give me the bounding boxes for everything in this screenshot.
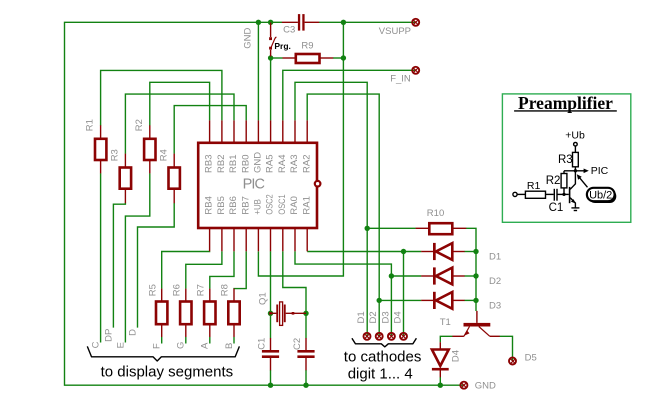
node C2 / GND rail junction [303, 383, 308, 388]
pin pad D5 [509, 358, 516, 365]
svg-text:Prg.: Prg. [274, 41, 291, 51]
transistor T1 [452, 311, 499, 336]
svg-text:D3: D3 [380, 311, 391, 323]
wire RB4 to R5 [162, 251, 210, 289]
node D2 anode junction [389, 273, 394, 278]
node R9 right / VSUPP rail junction [341, 55, 346, 60]
svg-text:R1: R1 [85, 119, 96, 131]
wire VSUPP net: vertical rail x=343.4 down to +UB row [258, 22, 343, 276]
svg-text:GND: GND [253, 152, 264, 173]
svg-text:C1: C1 [549, 202, 564, 214]
wire D3 cathode to bus [464, 299, 476, 301]
node Prg/R9/RA5 junction [268, 55, 273, 60]
preamp wire R1 to C1 [546, 193, 554, 195]
svg-text:DP: DP [104, 329, 115, 342]
wire OSC1 pin down, jog right, down to crystal right node and C2 [283, 251, 306, 338]
svg-text:VSUPP: VSUPP [379, 26, 411, 37]
svg-text:RB7: RB7 [240, 196, 251, 214]
svg-text:R2: R2 [134, 119, 145, 131]
svg-text:D1: D1 [356, 311, 367, 323]
svg-text:D2: D2 [489, 276, 501, 287]
wire R3 bottom to segment DP stub [113, 203, 125, 328]
preamp capacitor C1 [554, 189, 557, 201]
svg-text:D1: D1 [489, 252, 501, 263]
preamp ground symbol [571, 208, 579, 211]
wire T1 collector to D5 pad [500, 336, 513, 361]
resistor R9 [283, 54, 334, 63]
preamp resistor R2 [561, 174, 567, 188]
wire D2 cathode to bus [464, 275, 476, 277]
preamp arrow to PIC [584, 169, 589, 174]
wire R1 bottom to segment C stub [100, 173, 102, 342]
capacitor C3 [282, 14, 319, 31]
wire RA2 to segment column x=379.2 [307, 94, 379, 336]
svg-text:D: D [128, 329, 139, 336]
svg-text:F_IN: F_IN [390, 74, 411, 85]
svg-text:RA3: RA3 [289, 155, 300, 173]
svg-text:RA5: RA5 [265, 155, 276, 173]
svg-text:D5: D5 [525, 353, 537, 364]
resistor R4 [169, 154, 180, 204]
svg-text:F: F [152, 343, 163, 349]
resistor R10 [416, 223, 467, 234]
node R10 left junction [365, 226, 370, 231]
pin pad VSUPP [412, 19, 419, 26]
pin pad GND [460, 382, 467, 389]
preamp wire input to R1 [517, 193, 525, 195]
wire R10 left junction stub [367, 227, 416, 229]
diode D1 [421, 243, 464, 260]
preamp transistor base bar [569, 187, 571, 203]
preamp arrow badge to node [579, 177, 588, 187]
diode D2 [421, 267, 464, 284]
svg-text:OSC1: OSC1 [277, 194, 288, 214]
resistor R1 [95, 125, 106, 173]
IC U1 PIC bottom pins RB4 RB5 RB6 RB7 +UB OSC2 OSC1 RA0 RA1 [210, 229, 308, 252]
svg-text:D2: D2 [368, 311, 379, 323]
svg-text:B: B [224, 343, 235, 349]
wire R10 right to cathode bus x=476 down to T1 base [466, 228, 476, 311]
resistor R7 [204, 289, 215, 344]
capacitor C2 [297, 338, 314, 370]
svg-text:RB4: RB4 [204, 196, 215, 214]
svg-text:R6: R6 [172, 284, 183, 296]
wire RB6 to R7 [210, 251, 234, 289]
svg-text:E: E [115, 342, 126, 348]
node top-rail junction at Prg switch [268, 20, 273, 25]
wire F_IN net: RA4 pin up and right to F_IN pad [283, 70, 416, 120]
svg-text:Preamplifier: Preamplifier [518, 93, 613, 113]
preamplifier box [502, 94, 630, 222]
svg-text:to display segments: to display segments [101, 363, 234, 380]
node D2 cathode junction [473, 273, 478, 278]
resistor R6 [180, 289, 191, 344]
preamp node dot [574, 169, 577, 172]
wire GND net: top rail, left rail, bottom rail [65, 22, 464, 385]
svg-text:+Ub: +Ub [565, 129, 585, 141]
switch S1 Prg [269, 23, 276, 57]
svg-text:RB5: RB5 [216, 196, 227, 214]
svg-text:R3: R3 [109, 149, 120, 161]
svg-text:R3: R3 [558, 154, 573, 166]
svg-text:RA4: RA4 [277, 155, 288, 173]
preamp Ub/2 badge [587, 188, 615, 201]
svg-text:R2: R2 [546, 175, 561, 187]
preamp transistor collector [570, 171, 575, 190]
svg-text:to cathodes: to cathodes [344, 348, 422, 365]
preamp wire node horizontal [564, 170, 585, 172]
svg-text:R4: R4 [158, 149, 169, 161]
IC U1 PIC body [198, 143, 320, 228]
svg-text:RA2: RA2 [301, 155, 312, 173]
crystal Q1 [269, 302, 306, 326]
diode D3 [421, 292, 464, 309]
wire D4 cathode to GND rail [439, 377, 441, 385]
svg-text:RB3: RB3 [204, 155, 215, 173]
node C1 / GND rail junction [268, 383, 273, 388]
preamp wire R2 bottom to base [563, 188, 565, 195]
wire OSC2 pin down to crystal left node and C1 [270, 251, 272, 338]
preamp wire C1 to base [557, 193, 569, 195]
svg-text:+UB: +UB [253, 199, 264, 215]
wire T1 emitter to D4 anode [440, 336, 452, 342]
preamp input terminal [513, 192, 517, 196]
wire R9 right to VSUPP rail [333, 57, 343, 59]
preamp wire R2 top [563, 171, 565, 174]
preamp terminal +Ub [574, 142, 578, 146]
wire R9 left junction stub [271, 57, 283, 59]
node top-rail junction at VSUPP rail [341, 20, 346, 25]
resistor R8 [228, 289, 239, 344]
node D1 cathode junction [473, 249, 478, 254]
svg-text:C1: C1 [257, 338, 268, 350]
svg-text:R5: R5 [148, 284, 159, 296]
svg-text:A: A [200, 342, 211, 349]
node D4 / GND rail junction [438, 383, 443, 388]
wire RB3 to R2 row [150, 82, 210, 125]
wire R4 bottom to segment D stub [138, 203, 175, 328]
wire D2 anode junction stub [391, 275, 421, 277]
resistor R3 [120, 154, 131, 204]
svg-text:digit 1... 4: digit 1... 4 [348, 365, 413, 382]
resistor R5 [156, 289, 167, 344]
svg-text:RB1: RB1 [228, 155, 239, 173]
pin pad D2 cathode [376, 333, 383, 340]
svg-text:R10: R10 [427, 208, 444, 219]
brace display segments [87, 346, 239, 361]
node D3 cathode junction [473, 298, 478, 303]
preamp Ub/2 badge shadow [589, 190, 617, 203]
wire RB7 to R8 [234, 251, 246, 289]
svg-text:Q1: Q1 [258, 292, 269, 305]
wire RA1 right along D1 anode row [307, 251, 421, 253]
node D3 anode junction [377, 298, 382, 303]
wire RB1 to R3 row [125, 94, 234, 154]
svg-text:R7: R7 [196, 284, 207, 296]
node D1 anode junction [401, 249, 406, 254]
svg-text:T1: T1 [440, 317, 451, 328]
wire RB0 to R4 row [174, 106, 246, 154]
svg-text:PIC: PIC [591, 165, 609, 177]
diode D4 [432, 342, 449, 377]
svg-text:RB6: RB6 [228, 196, 239, 214]
preamp wire R3 to node [574, 167, 576, 171]
svg-text:Ub/2: Ub/2 [589, 190, 612, 202]
svg-text:D4: D4 [393, 311, 404, 323]
wire VSUPP net: C3 right to VSUPP pad [319, 21, 416, 23]
brace cathodes [352, 338, 417, 347]
svg-text:C3: C3 [283, 25, 295, 36]
preamp resistor R3 [573, 152, 579, 166]
svg-text:R8: R8 [220, 284, 231, 296]
svg-text:RA0: RA0 [289, 196, 300, 214]
wire RB2 to R1 row [101, 70, 222, 125]
preamp wire +Ub to R3 [574, 146, 576, 152]
pin pad F_IN [412, 67, 419, 74]
wire RA3 to segment column x=367.4 [295, 82, 367, 336]
wire C1 bottom to GND rail [270, 370, 272, 385]
node GND/top-rail junction at GND pin [256, 20, 261, 25]
svg-text:R1: R1 [527, 180, 541, 192]
wire R2 bottom to segment E stub [125, 173, 149, 342]
wire cathode column D4 pad from D1 anode junction [403, 252, 405, 337]
svg-text:C: C [91, 341, 102, 348]
preamp base junction dot [562, 193, 565, 196]
preamp transistor emitter with arrow [570, 198, 575, 208]
pin pad D3 cathode [388, 333, 395, 340]
svg-text:C2: C2 [292, 338, 303, 350]
wire RB5 to R6 [186, 251, 222, 289]
svg-text:PIC: PIC [243, 177, 265, 193]
svg-text:GND: GND [475, 380, 496, 391]
pin pad D1 cathode [364, 333, 371, 340]
svg-text:G: G [176, 342, 187, 349]
svg-text:GND: GND [242, 28, 253, 49]
wire C2 bottom to GND rail [305, 370, 307, 385]
svg-text:R9: R9 [301, 40, 313, 51]
preamp resistor R1 [525, 191, 545, 198]
wire RA5 pin up to Prg/R9 junction [270, 57, 272, 120]
IC U1 PIC top pins RB3 RB2 RB1 RB0 GND RA5 RA4 RA3 RA2 [210, 120, 308, 142]
wire GND pin of PIC up to top rail [257, 23, 259, 121]
svg-text:OSC2: OSC2 [265, 194, 276, 214]
wire D1 cathode to bus [464, 251, 476, 253]
svg-text:D4: D4 [450, 350, 461, 362]
svg-text:RA1: RA1 [301, 196, 312, 214]
node crystal right junction [303, 311, 308, 316]
capacitor C1 [262, 338, 279, 370]
pin pad D4 cathode [400, 333, 407, 340]
svg-text:D3: D3 [489, 300, 501, 311]
node crystal left junction [268, 311, 273, 316]
wire GND net stub to C3 left pin [271, 21, 282, 23]
resistor R2 [144, 125, 155, 173]
wire D3 anode junction stub [379, 299, 421, 301]
svg-text:RB0: RB0 [240, 155, 251, 173]
svg-text:RB2: RB2 [216, 155, 227, 173]
wire RA0 down and right to cathode column x=391.5 [295, 251, 391, 336]
title underline [514, 110, 617, 112]
